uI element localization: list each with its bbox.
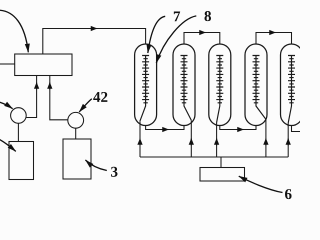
tank 3 [63, 139, 91, 179]
wire box1 top to column C1 [43, 29, 146, 55]
label 6 [285, 189, 292, 199]
ticks column C4 [253, 56, 260, 103]
wire P1 to tank2 [17, 123, 19, 141]
tank 2 [9, 142, 34, 180]
label 42 [93, 92, 107, 102]
leader cutoff top-left to box1 [0, 10, 28, 52]
label 7 [174, 11, 180, 21]
leader label 3 [85, 160, 106, 171]
arrow riser C3 [216, 139, 218, 146]
column C4 shell [245, 44, 267, 126]
leader label 6 [239, 176, 283, 192]
column C3 shell [209, 44, 231, 126]
label 3 [111, 167, 117, 177]
arrow riser C2 [190, 139, 192, 146]
leader label 7 [148, 16, 165, 53]
ticks column C3 [216, 56, 223, 103]
arrow bridge C2-C3 [199, 32, 206, 34]
arrow bridge C3-C4 [237, 129, 244, 131]
pump P1 [11, 108, 27, 124]
wire bottom bridge C1-C2 [146, 126, 184, 130]
column C3 inner tube [217, 56, 220, 123]
arrow feed line right [90, 28, 97, 30]
wire inlet left [0, 63, 15, 65]
arrow riser C1 [139, 139, 141, 146]
wire C5 outlet right [292, 126, 301, 132]
wire pump P2 to box1 [50, 76, 68, 120]
leader cutoff left to pump P1 [0, 102, 13, 109]
wire manifold to box6 [220, 157, 222, 168]
ticks column C1 [142, 56, 149, 103]
box 1 (feed mixer) [15, 54, 72, 76]
wire top bridge C2-C3 [184, 33, 220, 45]
column C5 inner tube [288, 56, 291, 124]
arrow P2 riser up [49, 83, 51, 90]
wire riser C5 to manifold [287, 123, 289, 157]
arrow riser C4 [265, 139, 267, 146]
wire riser C4 to manifold [265, 119, 267, 157]
column C2 inner tube [184, 56, 191, 121]
leader label 42 [79, 99, 92, 112]
label 8 [205, 11, 212, 21]
wire riser C1 to manifold [139, 121, 141, 157]
wire top bridge C4-C5 [256, 33, 292, 45]
column C1 shell [135, 44, 157, 126]
arrow riser C5 [287, 139, 289, 146]
wire pump P1 to box1 [26, 76, 36, 118]
wire riser C3 to manifold [216, 123, 218, 158]
pump P2 [68, 112, 84, 128]
ticks column C2 [181, 56, 188, 103]
box 6 (collector) [200, 168, 245, 182]
column C2 shell [173, 44, 195, 126]
wire riser C2 to manifold [190, 120, 192, 157]
column C5 shell [281, 44, 303, 126]
arrow bridge C4-C5 [269, 32, 276, 34]
wire P2 to tank3 [75, 128, 77, 139]
column C4 inner tube [256, 56, 266, 120]
wire bottom bridge C3-C4 [220, 126, 256, 130]
ticks column C5 [288, 56, 295, 103]
arrow bridge C1-C2 [162, 129, 169, 131]
arrow P1 riser up [36, 83, 38, 90]
wire bottom manifold [140, 156, 288, 158]
column C1 inner tube [140, 56, 146, 122]
leader label 8 [156, 16, 196, 63]
leader cutoff left to tank2 [0, 139, 16, 151]
